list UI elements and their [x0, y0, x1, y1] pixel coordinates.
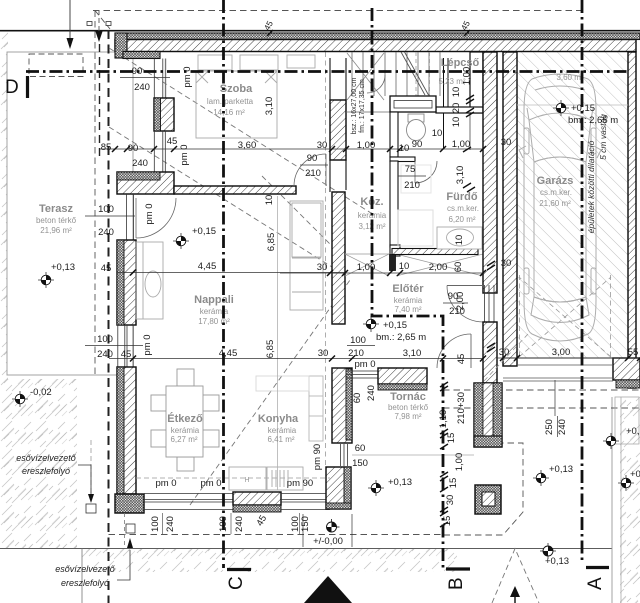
svg-text:pm 0: pm 0 — [354, 359, 375, 370]
survey marker -0,02 — [12, 391, 28, 407]
svg-text:20: 20 — [451, 103, 462, 114]
garage west wall — [503, 52, 517, 366]
svg-text:ereszlefolyó: ereszlefolyó — [22, 466, 70, 476]
bathtub — [437, 227, 482, 249]
eaves dashed bottom — [109, 534, 444, 536]
furdo south wall pier — [390, 245, 400, 256]
top small filled arrow — [96, 32, 103, 43]
svg-text:90: 90 — [128, 143, 139, 154]
svg-text:3,10: 3,10 — [264, 97, 275, 116]
eaves dashed vertical x95 — [94, 11, 96, 376]
nappali cabinet east — [290, 201, 323, 310]
eaves dashed vertical left — [108, 30, 110, 603]
svg-text:5,23 m²: 5,23 m² — [438, 77, 465, 86]
svg-text:240: 240 — [132, 158, 148, 169]
insulation substrip below north wall left — [123, 52, 160, 59]
svg-text:pm 90: pm 90 — [312, 444, 323, 470]
svg-text:15: 15 — [446, 433, 457, 444]
terasz slab — [7, 52, 133, 375]
svg-text:10: 10 — [432, 128, 443, 139]
etkezo table — [151, 369, 219, 471]
tornac door leaf and arc — [470, 334, 472, 368]
car — [519, 74, 601, 341]
entrance column — [474, 383, 502, 447]
svg-text:+0,13: +0,13 — [545, 556, 569, 567]
survey marker east2 — [618, 475, 634, 491]
svg-text:Lépcső: Lépcső — [441, 57, 480, 69]
svg-text:150: 150 — [300, 516, 311, 532]
svg-text:cs.m.ker.: cs.m.ker. — [540, 188, 572, 197]
svg-text:30: 30 — [499, 347, 510, 358]
svg-text:85: 85 — [101, 142, 112, 153]
hip dashed diagonal 2 — [109, 127, 332, 267]
svg-text:ereszlefolyó: ereszlefolyó — [61, 578, 109, 588]
szoba south wall — [174, 186, 296, 194]
svg-text:Előtér: Előtér — [392, 283, 424, 295]
svg-text:esővízelvezető: esővízelvezető — [55, 564, 116, 574]
svg-text:Garázs: Garázs — [537, 175, 574, 187]
survey markers — [12, 100, 640, 567]
north triangle big — [304, 576, 352, 603]
svg-text:210+30: 210+30 — [456, 392, 467, 424]
svg-text:cs.m.ker.: cs.m.ker. — [447, 204, 479, 213]
survey marker plotline +0,13 — [540, 543, 556, 559]
SE kitchen corner block — [326, 467, 351, 509]
svg-text:-0,02: -0,02 — [30, 387, 52, 398]
kitchen counter east — [256, 376, 323, 441]
svg-text:10: 10 — [264, 195, 275, 206]
kitchen upper cabinets dashed — [136, 477, 330, 479]
svg-text:30: 30 — [445, 495, 456, 506]
svg-text:30: 30 — [501, 258, 512, 269]
svg-text:3,60 m²: 3,60 m² — [556, 73, 583, 82]
eloter south window — [346, 371, 378, 378]
stairs dashed overhead — [415, 52, 417, 96]
wc door arc — [367, 75, 385, 93]
tornac slab edge — [352, 454, 474, 456]
svg-text:240: 240 — [165, 516, 176, 532]
svg-text:A: A — [585, 577, 606, 590]
svg-text:kerámia: kerámia — [268, 426, 297, 435]
svg-text:esővízelvezető: esővízelvezető — [16, 453, 77, 463]
esoviz leader 1 — [78, 465, 91, 497]
svg-text:+/-0,00: +/-0,00 — [313, 536, 343, 547]
nappali west door arc — [136, 198, 176, 238]
svg-text:pm 90: pm 90 — [287, 478, 313, 489]
south wall block — [233, 492, 281, 505]
koz south opening X — [345, 254, 389, 276]
wc east L-partition — [470, 52, 483, 113]
szoba east wall block — [330, 100, 346, 160]
room labels — [36, 57, 584, 444]
north wall hatch band — [115, 40, 636, 52]
svg-text:bm.: 2,65 m: bm.: 2,65 m — [568, 115, 618, 126]
svg-text:pm 0: pm 0 — [144, 203, 155, 224]
svg-text:6,41 m²: 6,41 m² — [267, 435, 294, 444]
svg-text:55: 55 — [628, 347, 639, 358]
survey marker tornac +0,13 — [368, 480, 384, 496]
dashed projection line x325 — [325, 52, 327, 467]
svg-text:+0,13: +0,13 — [388, 477, 412, 488]
garage interior line — [517, 104, 628, 106]
plot corner marks — [87, 22, 92, 26]
kitchen east window — [341, 444, 348, 466]
svg-text:bm.: 2,65 m: bm.: 2,65 m — [376, 332, 426, 343]
svg-text:90: 90 — [448, 291, 459, 302]
svg-text:30: 30 — [318, 348, 329, 359]
dim ticks — [112, 146, 640, 362]
svg-text:beton térkő: beton térkő — [36, 216, 77, 225]
svg-text:210: 210 — [449, 306, 465, 317]
kitchen counters bottom — [229, 467, 303, 490]
entrance door leaf and arc — [447, 285, 483, 287]
svg-text:lam. parketta: lam. parketta — [207, 97, 254, 106]
szoba west window lower — [154, 131, 165, 172]
svg-text:14,16 m²: 14,16 m² — [213, 108, 245, 117]
svg-text:10: 10 — [451, 117, 462, 128]
svg-text:fm.: 17x17,35 cm: fm.: 17x17,35 cm — [359, 79, 366, 133]
section line B — [372, 8, 443, 570]
svg-text:+0,13: +0,13 — [549, 464, 573, 475]
etkezo west wall block — [117, 367, 136, 494]
svg-text:75: 75 — [405, 164, 416, 175]
svg-text:240: 240 — [234, 516, 245, 532]
svg-text:30: 30 — [501, 137, 512, 148]
porch column south — [475, 485, 501, 514]
svg-text:+0,13: +0,13 — [51, 262, 75, 273]
svg-text:6,85: 6,85 — [266, 233, 277, 252]
section line C — [222, 0, 225, 568]
dashed box top-left — [29, 54, 83, 77]
terrain right strip — [620, 397, 640, 603]
survey marker garazs +0,15 — [553, 100, 569, 116]
svg-text:10: 10 — [399, 143, 410, 154]
plot line right vertical — [611, 397, 613, 603]
stairs treads — [346, 52, 440, 112]
garage east wall — [628, 52, 636, 388]
terrain bottom band — [82, 549, 457, 572]
hip dashed diagonal 1 — [109, 48, 371, 213]
stairs break line — [401, 52, 425, 95]
svg-text:épületek közötti dilatáció: épületek közötti dilatáció — [586, 140, 596, 233]
dim ticks vertical chain — [440, 95, 495, 527]
nappali sofa — [136, 242, 163, 319]
svg-text:240: 240 — [366, 385, 377, 401]
hip dashed diagonal 3 — [190, 280, 350, 505]
svg-text:100: 100 — [97, 334, 113, 345]
svg-text:+0,: +0, — [630, 469, 640, 480]
svg-text:C: C — [226, 576, 247, 590]
svg-text:17,80 m²: 17,80 m² — [198, 317, 230, 326]
stairs X lines — [347, 53, 384, 100]
svg-text:1,00: 1,00 — [454, 453, 465, 472]
svg-text:Nappali: Nappali — [194, 294, 234, 306]
svg-text:3,10: 3,10 — [455, 166, 466, 185]
svg-text:45: 45 — [121, 349, 132, 360]
svg-text:D: D — [5, 77, 19, 98]
svg-text:pm 0: pm 0 — [155, 478, 176, 489]
svg-text:4,45: 4,45 — [198, 261, 217, 272]
section line A — [581, 0, 584, 560]
garage door dashed X — [484, 275, 611, 381]
east wall upper — [483, 52, 497, 293]
terrain left-bottom area — [0, 379, 77, 548]
eloter west pier — [390, 255, 396, 271]
svg-text:210: 210 — [305, 168, 321, 179]
svg-text:Fürdő: Fürdő — [446, 191, 477, 203]
svg-text:Konyha: Konyha — [258, 413, 299, 425]
nappali west door opening — [127, 194, 134, 240]
svg-text:240: 240 — [97, 349, 113, 360]
stairs right pier — [443, 58, 445, 148]
washing machine — [398, 210, 433, 246]
section line D — [26, 70, 628, 73]
bottom dim separators — [163, 513, 300, 534]
svg-text:60: 60 — [355, 443, 366, 454]
svg-text:240: 240 — [98, 227, 114, 238]
eaves dashed garage south — [443, 389, 640, 391]
svg-text:6,85: 6,85 — [265, 340, 276, 359]
toilet — [408, 114, 424, 122]
svg-text:beton térkő: beton térkő — [388, 403, 429, 412]
svg-text:4,45: 4,45 — [219, 348, 238, 359]
survey marker south wall — [327, 519, 340, 532]
garage door head lines — [503, 357, 613, 359]
svg-text:+0,15: +0,15 — [383, 320, 407, 331]
tornac north wall piece — [378, 368, 427, 384]
furdo door arc — [415, 161, 437, 183]
svg-text:pm 0: pm 0 — [142, 334, 153, 355]
svg-text:Terasz: Terasz — [39, 203, 74, 215]
esoviz leader 2 — [117, 550, 130, 580]
svg-text:100: 100 — [350, 335, 366, 346]
szoba west window upper — [154, 59, 166, 99]
svg-text:+0,: +0, — [626, 426, 639, 437]
svg-text:10: 10 — [451, 87, 462, 98]
west corner block nappali — [117, 172, 174, 194]
nappali west wall block — [117, 240, 136, 325]
svg-text:kerámia: kerámia — [171, 426, 200, 435]
survey marker nappali +0,15 — [173, 233, 189, 249]
szoba door arc — [294, 154, 326, 186]
svg-text:3,00: 3,00 — [552, 347, 571, 358]
svg-text:B: B — [446, 577, 467, 590]
svg-text:30: 30 — [317, 140, 328, 151]
entrance door opening — [485, 285, 495, 322]
NW corner insulation block — [115, 33, 127, 58]
south wall window east — [281, 494, 330, 510]
svg-text:10: 10 — [454, 235, 465, 246]
szoba bed — [196, 55, 315, 138]
svg-text:pm 0: pm 0 — [179, 144, 190, 165]
svg-text:60: 60 — [352, 393, 363, 404]
stairs dim line vertical — [469, 62, 471, 150]
svg-text:21,60 m²: 21,60 m² — [539, 199, 571, 208]
svg-text:240: 240 — [557, 419, 568, 435]
terrain left strip — [0, 31, 8, 548]
svg-text:90: 90 — [412, 139, 423, 150]
garage door threshold — [503, 377, 613, 379]
svg-text:kerámia: kerámia — [394, 296, 423, 305]
svg-text:250: 250 — [544, 419, 555, 435]
svg-text:240: 240 — [134, 82, 150, 93]
svg-text:100: 100 — [98, 204, 114, 215]
svg-text:45: 45 — [101, 263, 112, 274]
svg-text:210: 210 — [348, 348, 364, 359]
svg-text:H: H — [244, 477, 249, 484]
driveway dashed V — [492, 549, 539, 603]
svg-text:90: 90 — [307, 153, 318, 164]
svg-text:6,20 m²: 6,20 m² — [448, 215, 475, 224]
svg-text:+0,15: +0,15 — [192, 226, 216, 237]
top arrow marker — [69, 0, 71, 44]
svg-text:3,10: 3,10 — [403, 348, 422, 359]
survey marker driveway +0,13 — [533, 470, 549, 486]
plot line bottom-left vertical — [81, 549, 83, 603]
svg-text:1,00: 1,00 — [452, 139, 471, 150]
svg-text:210: 210 — [404, 180, 420, 191]
garage apron rect — [615, 397, 639, 444]
partition wc/furdo horizontal — [390, 157, 415, 162]
svg-text:Tornác: Tornác — [390, 391, 426, 403]
garage floor hatch — [517, 52, 628, 358]
svg-text:150: 150 — [352, 458, 368, 469]
svg-text:30: 30 — [317, 262, 328, 273]
east wall lower — [483, 322, 497, 383]
north wall insulation band — [115, 33, 640, 40]
SW corner block — [115, 494, 144, 513]
wc cabinet — [390, 96, 436, 112]
kitchen east wall block — [332, 368, 352, 443]
svg-text:100: 100 — [150, 516, 161, 532]
eaves dashed top — [93, 10, 582, 12]
small arrow bottom — [510, 586, 520, 597]
svg-text:6,27 m²: 6,27 m² — [170, 435, 197, 444]
svg-text:7,98 m²: 7,98 m² — [394, 412, 421, 421]
svg-text:21,96 m²: 21,96 m² — [40, 226, 72, 235]
svg-text:3,60: 3,60 — [238, 140, 257, 151]
svg-text:7,40 m²: 7,40 m² — [394, 305, 421, 314]
svg-text:45: 45 — [167, 136, 178, 147]
survey marker eloter +0,15 — [363, 316, 379, 332]
nappali east wall — [332, 192, 345, 324]
plot boundary top line — [0, 30, 640, 32]
esoviz labels — [16, 453, 116, 588]
south wall window west — [144, 494, 233, 510]
svg-text:Étkező: Étkező — [167, 412, 203, 425]
eaves dashed porch right — [440, 443, 523, 535]
furdo west partition — [390, 161, 398, 247]
szoba west wall block — [154, 98, 174, 131]
svg-text:10: 10 — [399, 261, 410, 272]
garage south wall piece — [613, 358, 640, 380]
svg-text:60: 60 — [453, 262, 464, 273]
furdo south wall hatched — [392, 249, 478, 255]
svg-text:bsz.: 16x27,00 cm: bsz.: 16x27,00 cm — [351, 77, 358, 134]
svg-text:45: 45 — [456, 354, 467, 365]
eloter north opening X — [396, 254, 483, 276]
svg-text:15: 15 — [448, 478, 459, 489]
survey marker terasz +0,13 — [38, 272, 54, 288]
wc partition west — [390, 112, 398, 157]
svg-text:pm 0: pm 0 — [200, 478, 221, 489]
nappali west window — [118, 325, 133, 367]
svg-text:2,00: 2,00 — [429, 262, 448, 273]
plot line bottom — [0, 548, 612, 550]
survey marker east +0,13 — [603, 433, 619, 449]
svg-text:pm 0: pm 0 — [182, 66, 193, 87]
